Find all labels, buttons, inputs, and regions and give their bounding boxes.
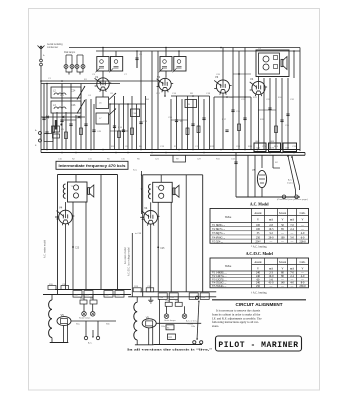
svg-text:V2 6K7G ...: V2 6K7G ... [212, 228, 226, 231]
svg-text:C26: C26 [71, 104, 76, 107]
svg-text:V4: V4 [59, 206, 63, 210]
svg-text:A.C./D.C. Model: A.C./D.C. Model [246, 252, 273, 256]
svg-text:254*: 254* [255, 240, 261, 243]
svg-text:V1 6K8G ...: V1 6K8G ... [212, 224, 226, 227]
svg-text:Cath.: Cath. [300, 212, 306, 215]
svg-text:—: — [290, 232, 294, 235]
svg-text:mA: mA [269, 267, 273, 270]
svg-text:A.C. mains model: A.C. mains model [44, 239, 47, 258]
svg-text:V: V [302, 219, 304, 222]
svg-text:Screen: Screen [279, 212, 287, 215]
svg-text:—: — [269, 285, 273, 288]
svg-text:Screen: Screen [279, 261, 287, 264]
svg-text:Valve: Valve [225, 216, 232, 219]
svg-text:—: — [280, 285, 284, 288]
svg-text:to C38: to C38 [135, 232, 142, 235]
svg-text:V5 5Z4 ...: V5 5Z4 ... [212, 240, 223, 243]
svg-text:—: — [290, 240, 294, 243]
svg-text:A.C./D.C. low voltage model: A.C./D.C. low voltage model [128, 247, 131, 276]
svg-text:—: — [280, 232, 284, 235]
svg-text:V5: V5 [146, 315, 150, 319]
svg-text:100: 100 [256, 224, 261, 227]
svg-text:mA: mA [290, 219, 294, 222]
svg-text:mA: mA [290, 267, 294, 270]
svg-text:V5 35Z4G ...: V5 35Z4G ... [212, 285, 227, 288]
svg-text:* A.C. heating.: * A.C. heating. [251, 246, 268, 249]
svg-text:—: — [269, 240, 273, 243]
svg-text:V1: V1 [95, 75, 99, 79]
svg-text:S+C: S+C [133, 170, 138, 172]
svg-text:Valve: Valve [225, 265, 232, 268]
svg-text:following instructions apply t: following instructions apply to all ver- [212, 320, 259, 324]
svg-text:Anode: Anode [254, 261, 262, 264]
svg-text:mains: mains [287, 183, 294, 185]
svg-text:A.C. or D.C.: A.C. or D.C. [186, 320, 198, 323]
svg-text:10-5: 10-5 [269, 228, 275, 231]
svg-text:A.C. Model: A.C. Model [250, 203, 269, 207]
svg-text:two-valve model: two-valve model [124, 247, 127, 264]
svg-text:V3 6Q7G ...: V3 6Q7G ... [212, 232, 226, 235]
svg-text:C25: C25 [160, 248, 165, 250]
svg-text:V: V [257, 267, 259, 270]
svg-text:A.C.: A.C. [88, 342, 93, 345]
svg-text:—: — [290, 285, 294, 288]
svg-text:250: 250 [256, 285, 261, 288]
svg-text:Scale lamps: Scale lamps [79, 318, 90, 320]
svg-text:Scale lamps: Scale lamps [164, 320, 175, 322]
svg-text:V2: V2 [157, 75, 161, 79]
svg-text:29-0: 29-0 [269, 236, 275, 239]
svg-text:V: V [257, 219, 259, 222]
svg-text:250: 250 [256, 236, 261, 239]
svg-text:Anode: Anode [254, 212, 262, 215]
svg-text:V: V [282, 267, 284, 270]
svg-text:(Continued from previous page.: (Continued from previous page.) [277, 198, 308, 201]
svg-text:—: — [300, 228, 304, 231]
svg-text:condenser: condenser [47, 46, 58, 49]
svg-text:100: 100 [280, 236, 285, 239]
svg-text:V5: V5 [61, 313, 65, 317]
svg-text:A.C.: A.C. [288, 179, 293, 182]
svg-text:Dial lamps: Dial lamps [64, 51, 76, 54]
svg-text:100: 100 [256, 228, 261, 231]
svg-text:228-0: 228-0 [299, 240, 306, 243]
svg-text:C24: C24 [71, 90, 76, 93]
svg-text:V4: V4 [144, 206, 148, 210]
svg-text:V4 6V6G ...: V4 6V6G ... [212, 236, 226, 239]
svg-text:—: — [300, 224, 304, 227]
svg-text:sions.: sions. [212, 324, 219, 328]
svg-text:Intermediate frequency 470 kc/: Intermediate frequency 470 kc/s [59, 164, 126, 168]
svg-text:V: V [302, 267, 304, 270]
svg-text:V5: V5 [252, 168, 256, 172]
svg-text:PILOT - MARINER: PILOT - MARINER [218, 341, 298, 350]
svg-text:C25: C25 [75, 248, 80, 250]
svg-text:In all versions the chassis is: In all versions the chassis is “live,” [127, 346, 213, 351]
svg-text:CIRCUIT ALIGNMENT: CIRCUIT ALIGNMENT [235, 302, 282, 307]
svg-text:—: — [280, 240, 284, 243]
svg-text:mains: mains [188, 324, 194, 326]
svg-text:V4: V4 [250, 77, 254, 81]
svg-text:250-0: 250-0 [299, 285, 306, 288]
svg-text:mA: mA [269, 219, 273, 222]
svg-text:V: V [282, 219, 284, 222]
svg-text:Cath.: Cath. [300, 261, 306, 264]
svg-text:† A.C. heating.: † A.C. heating. [251, 291, 268, 294]
